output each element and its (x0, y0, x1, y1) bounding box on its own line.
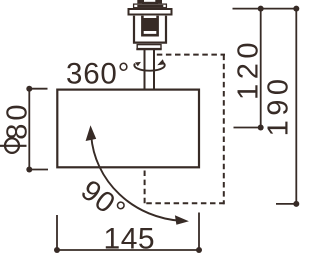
190 dimension dots (293, 6, 299, 12)
phi80 dimension end dots (26, 86, 32, 92)
145 dimension dots (54, 247, 60, 253)
phi80 bottom tick (29, 169, 48, 171)
145 left extension line (56, 215, 58, 250)
track adapter body (134, 16, 166, 43)
stem left line (144, 50, 146, 89)
360 rotation ellipse arc (134, 63, 164, 71)
svg-text:190: 190 (262, 74, 294, 136)
phi80 top tick (29, 88, 47, 90)
360 rotation left arrowhead (135, 62, 141, 66)
190 dimension line (295, 9, 297, 204)
145 right extension line (198, 213, 200, 251)
120 dimension line (260, 9, 262, 128)
top reference line for 120/190 (233, 8, 297, 10)
track adapter flange (129, 9, 172, 15)
track adapter neck dark band (137, 5, 163, 7)
track adapter lower plate (137, 45, 161, 49)
svg-text:360°: 360° (66, 57, 130, 90)
190 bottom tick (276, 203, 296, 205)
track adapter top contact bridge (137, 0, 162, 4)
svg-text:145: 145 (104, 223, 156, 253)
phi80 dimension line (28, 89, 30, 170)
dashed rotated-body outline left edge (144, 161, 146, 204)
145 dimension line (57, 249, 199, 251)
stem right line (153, 50, 155, 89)
dashed rotated-body outline top edge (157, 54, 225, 56)
track adapter inner channel (142, 16, 157, 36)
track adapter lower plate bottom edge (136, 48, 161, 50)
120 bottom tick (234, 127, 261, 129)
track adapter black window (144, 18, 157, 31)
360 rotation right arrowhead (157, 59, 165, 65)
svg-text:80: 80 (1, 101, 33, 139)
svg-text:120: 120 (233, 38, 265, 100)
90deg swing top arrowhead (86, 125, 97, 141)
dashed rotated-body outline right edge (223, 55, 225, 205)
90deg swing arc (91, 136, 181, 221)
dashed rotated-body outline bottom edge (144, 202, 225, 204)
label phi80 phi loop (5, 138, 19, 153)
track adapter neck bar (134, 4, 167, 8)
lamp body (57, 90, 199, 168)
120 dimension dots (258, 6, 264, 12)
label phi80 phi stem (0, 145, 27, 147)
90deg swing right arrowhead (175, 215, 189, 225)
